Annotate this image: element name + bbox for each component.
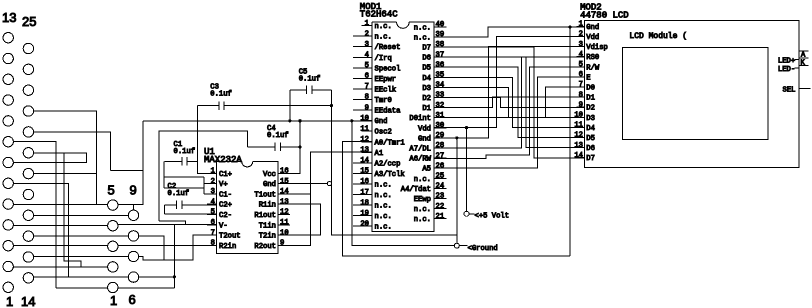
connector J1 DB25 pin 12 circle bbox=[3, 53, 13, 63]
svg-text:R2out: R2out bbox=[254, 243, 276, 251]
svg-text:24: 24 bbox=[436, 183, 445, 191]
wire DB25 pin20 to node bbox=[34, 173, 97, 175]
MOD1 pin 12 stub bbox=[362, 141, 373, 143]
svg-text:E: E bbox=[586, 74, 590, 82]
U1 pin 1 stub bbox=[207, 172, 217, 174]
svg-text:n.c.: n.c. bbox=[375, 34, 392, 42]
MOD1 pin 35 stub bbox=[434, 76, 447, 78]
svg-text:<+5 Volt: <+5 Volt bbox=[475, 213, 510, 221]
junction C4 right bbox=[298, 145, 301, 148]
svg-text:D5: D5 bbox=[422, 65, 431, 73]
MOD1 pin 32 stub bbox=[434, 107, 447, 109]
svg-text:13: 13 bbox=[280, 198, 289, 206]
MOD2 pin 10 stub bbox=[577, 116, 585, 118]
MOD1 pin 24 stub bbox=[434, 187, 447, 189]
svg-text:Osc2: Osc2 bbox=[375, 129, 392, 137]
U1 pin 3 stub bbox=[207, 193, 217, 195]
connector J1 DB25 pin 5 circle bbox=[3, 199, 13, 209]
svg-text:D4: D4 bbox=[586, 125, 595, 133]
MOD2 pin 14 stub bbox=[577, 157, 585, 159]
connector J2 DB9 pin 4 circle bbox=[108, 221, 118, 231]
svg-text:31: 31 bbox=[436, 112, 445, 120]
svg-text:EEpwr: EEpwr bbox=[375, 76, 397, 84]
wire U1 T1out to drop bbox=[278, 193, 311, 195]
capacitor C3 0.1uf bbox=[198, 101, 332, 109]
wire DB9 pin4 to U1 pin6 V- bbox=[118, 223, 217, 225]
junction LCD Gnd riser bbox=[568, 25, 571, 28]
svg-text:33: 33 bbox=[436, 92, 445, 100]
svg-text:D0: D0 bbox=[586, 85, 595, 93]
svg-text:C1-: C1- bbox=[219, 191, 232, 199]
svg-text:1: 1 bbox=[365, 20, 369, 28]
MOD1 pin 6 stub bbox=[353, 77, 372, 79]
svg-text:6: 6 bbox=[129, 292, 136, 307]
wire jog vertical bbox=[203, 177, 205, 194]
MOD1 pin 5 stub bbox=[353, 67, 372, 69]
svg-text:n.c.: n.c. bbox=[414, 206, 431, 214]
terminal Ground open circle bbox=[454, 243, 459, 248]
MOD1 pin 13 stub bbox=[362, 151, 373, 153]
MOD1 pin 16 stub bbox=[353, 183, 372, 185]
svg-text:/Reset: /Reset bbox=[375, 44, 401, 52]
svg-text:15: 15 bbox=[280, 178, 289, 186]
connector J2 DB9 pin 8 circle bbox=[128, 231, 138, 241]
svg-text:V+: V+ bbox=[219, 181, 228, 189]
MOD2 pin 11 stub bbox=[577, 126, 585, 128]
svg-text:A0/Tmr1: A0/Tmr1 bbox=[375, 139, 405, 147]
MOD2 pin 4 stub bbox=[577, 56, 585, 58]
svg-text:20: 20 bbox=[360, 220, 369, 228]
connector J1 DB25 pin 19 circle bbox=[23, 168, 33, 178]
U1 pin 7 stub bbox=[207, 234, 217, 236]
MOD2 pin 13 stub bbox=[577, 147, 585, 149]
wire DB9 pin8 drop to T2out line bbox=[139, 236, 165, 260]
svg-text:9: 9 bbox=[280, 240, 284, 248]
svg-text:Tmr0: Tmr0 bbox=[375, 97, 392, 105]
module MOD2 44780 LCD outer box bbox=[584, 21, 799, 168]
wire MOD1 pin32 D1 to LCD pin8 bbox=[434, 97, 585, 107]
MOD1 pin 9 stub bbox=[353, 109, 372, 111]
MOD1 pin 20 stub bbox=[353, 225, 372, 227]
svg-text:1: 1 bbox=[211, 168, 215, 176]
tick Ground bbox=[459, 245, 467, 247]
svg-text:n.c.: n.c. bbox=[375, 224, 392, 232]
svg-text:0.1uf: 0.1uf bbox=[210, 91, 232, 99]
connector J2 DB9 pin 9 circle bbox=[128, 210, 138, 220]
svg-text:4: 4 bbox=[365, 51, 369, 59]
svg-text:29: 29 bbox=[436, 132, 445, 140]
svg-text:10: 10 bbox=[574, 112, 583, 120]
svg-text:n.c.: n.c. bbox=[375, 182, 392, 190]
svg-text:13: 13 bbox=[574, 142, 583, 150]
wire into U1 pin2 bbox=[204, 183, 216, 185]
wire jumper DB25 pin21R to pin8L bbox=[13, 153, 86, 163]
MOD2 pin 8 stub bbox=[577, 96, 585, 98]
capacitor C5 0.1uf bbox=[290, 86, 332, 94]
MOD1 pin 27 stub bbox=[434, 157, 447, 159]
svg-text:6: 6 bbox=[211, 219, 215, 227]
svg-text:6: 6 bbox=[579, 71, 583, 79]
wire drop to DB9 pin2 net bbox=[64, 153, 81, 267]
wire DB25 pin22 to DB9 pin5 bbox=[34, 111, 97, 205]
svg-text:22: 22 bbox=[436, 203, 445, 211]
MOD1 pin 11 stub bbox=[362, 130, 373, 132]
svg-text:35: 35 bbox=[436, 72, 445, 80]
MOD1 pin 29 stub bbox=[434, 137, 447, 139]
U1 pin 8 stub bbox=[207, 244, 217, 246]
svg-text:14: 14 bbox=[280, 188, 289, 196]
IC MOD1 T62H64C body bbox=[397, 22, 410, 28]
U1 pin 5 stub bbox=[207, 214, 217, 216]
svg-text:28: 28 bbox=[436, 142, 445, 150]
svg-text:D3: D3 bbox=[586, 115, 595, 123]
svg-text:n.c.: n.c. bbox=[414, 176, 431, 184]
connector J1 DB25 pin 16 circle bbox=[23, 231, 33, 241]
svg-text:39: 39 bbox=[436, 31, 445, 39]
svg-text:D4: D4 bbox=[422, 75, 431, 83]
connector J2 DB9 pin 3 circle bbox=[108, 241, 118, 251]
wire jog to U1 pin6 row bbox=[159, 221, 186, 225]
svg-text:A4/Tdat: A4/Tdat bbox=[401, 186, 431, 194]
MOD1 pin 2 stub bbox=[353, 35, 372, 37]
svg-text:8: 8 bbox=[365, 94, 369, 102]
svg-text:2: 2 bbox=[211, 178, 215, 186]
wire MOD1 pin13 to U1 R2out bbox=[278, 152, 372, 245]
svg-text:Vdd: Vdd bbox=[586, 34, 599, 42]
MOD1 pin 34 stub bbox=[434, 86, 447, 88]
wire MOD1 pin36 D5 to LCD pin12 bbox=[434, 67, 585, 137]
wire ground drop to terminal bbox=[456, 138, 458, 243]
svg-text:5: 5 bbox=[108, 183, 115, 198]
svg-text:14: 14 bbox=[360, 157, 369, 165]
MOD1 pin 33 stub bbox=[434, 97, 447, 99]
svg-text:R/W: R/W bbox=[586, 64, 600, 72]
MOD2 pin 7 stub bbox=[577, 86, 585, 88]
svg-text:n.c.: n.c. bbox=[375, 192, 392, 200]
wire DB9 pin6 to junction bbox=[139, 276, 175, 278]
junction DB9 pin6 net bbox=[173, 275, 176, 278]
U1 pin 6 stub bbox=[207, 224, 217, 226]
connector J2 DB9 pin 7 circle bbox=[128, 251, 138, 261]
junction Vcc vertical on ground line bbox=[298, 119, 301, 122]
wire ground drop to rail bbox=[352, 121, 457, 246]
svg-text:37: 37 bbox=[436, 51, 445, 59]
connector J1 DB25 pin 18 circle bbox=[23, 189, 33, 199]
wire drop into DB9 pin9 bbox=[133, 205, 135, 210]
wire MOD1 pin28 to LCD pin4 bbox=[434, 57, 585, 148]
svg-text:C1+: C1+ bbox=[219, 171, 232, 179]
wire bridge to DB9 pin9 net bbox=[111, 169, 143, 171]
MOD1 pin 40 stub bbox=[434, 26, 447, 28]
LCD display screen inner box bbox=[623, 48, 768, 140]
wire DB25 pin8L down bbox=[13, 142, 56, 289]
connector J1 DB25 pin 4 circle bbox=[3, 220, 13, 230]
connector J1 DB25 pin 11 circle bbox=[3, 74, 13, 84]
MOD1 pin 3 stub bbox=[353, 46, 372, 48]
connector J1 DB25 pin 14 circle bbox=[23, 273, 33, 283]
wire DB9 pin4 net riser to capacitor C4 bbox=[159, 131, 248, 221]
junction C3 right bbox=[330, 104, 333, 107]
wire MOD1 pin37 D6 to LCD pin13 bbox=[434, 57, 585, 148]
MOD2 pin 2 stub bbox=[577, 36, 585, 38]
connector J1 DB25 pin 2 circle bbox=[3, 261, 13, 271]
svg-text:n.c.: n.c. bbox=[375, 23, 392, 31]
wire DB25 pin21 to bridge bbox=[34, 132, 111, 171]
wire MOD1 pin35 D4 to LCD pin11 bbox=[434, 77, 585, 127]
wire DB25 pin4L to DB9 pin4 bbox=[13, 224, 107, 226]
svg-text:EEclk: EEclk bbox=[375, 86, 397, 94]
wire +5V drop bbox=[466, 128, 468, 212]
svg-text:/Irq: /Irq bbox=[375, 55, 392, 63]
svg-text:LED+: LED+ bbox=[778, 58, 795, 66]
svg-text:Vdd: Vdd bbox=[418, 125, 431, 133]
connector J1 DB25 pin 6 circle bbox=[3, 178, 13, 188]
wire DB25 pin15R to DB9 pin6 bbox=[34, 276, 129, 278]
MOD1 pin 23 stub bbox=[434, 198, 447, 200]
U1 pin 4 stub bbox=[207, 203, 217, 205]
svg-text:5: 5 bbox=[579, 61, 583, 69]
wire DB25 pin7L to DB9 pin6 net bbox=[13, 183, 68, 277]
connector J1 DB25 pin 13 circle bbox=[3, 33, 13, 43]
svg-text:11: 11 bbox=[574, 122, 583, 130]
svg-text:RS0: RS0 bbox=[586, 54, 599, 62]
svg-text:2: 2 bbox=[365, 30, 369, 38]
connector J1 DB25 pin 8 circle bbox=[3, 137, 13, 147]
wire DB25 pin16R to DB9 pin8 bbox=[34, 235, 129, 237]
MOD1 pin 14 stub bbox=[353, 162, 372, 164]
capacitor C4 0.1uf bbox=[248, 143, 300, 151]
svg-text:40: 40 bbox=[436, 21, 445, 29]
svg-text:9: 9 bbox=[130, 183, 137, 198]
svg-text:2: 2 bbox=[579, 31, 583, 39]
MOD1 pin 7 stub bbox=[353, 88, 372, 90]
svg-text:16: 16 bbox=[360, 178, 369, 186]
svg-text:D7: D7 bbox=[422, 45, 431, 53]
wire to U1 pin2 jog bbox=[164, 176, 204, 178]
svg-text:D1: D1 bbox=[422, 105, 431, 113]
svg-text:A6/RW: A6/RW bbox=[409, 156, 431, 164]
connector J2 DB9 pin 2 circle bbox=[108, 262, 118, 272]
MOD1 pin 4 stub bbox=[353, 56, 372, 58]
svg-text:Gnd: Gnd bbox=[375, 118, 388, 126]
wire DB25 pin17R to DB9 pin9 bbox=[34, 214, 129, 216]
svg-text:A5: A5 bbox=[422, 166, 431, 174]
U1 pin 10 stub bbox=[278, 234, 290, 236]
wire C2 to U1 pin5 bbox=[165, 213, 217, 215]
MOD1 pin 36 stub bbox=[434, 66, 447, 68]
MOD1 pin 8 stub bbox=[353, 99, 372, 101]
svg-text:32: 32 bbox=[436, 102, 445, 110]
svg-text:EEdata: EEdata bbox=[375, 108, 402, 116]
svg-text:n.c.: n.c. bbox=[414, 24, 431, 32]
svg-text:<Ground: <Ground bbox=[468, 245, 498, 253]
wire DB25 pin5L to DB9 pin5 bbox=[13, 204, 107, 206]
wire ground net DB9 pin9 to MOD1 pin10 bbox=[143, 120, 372, 122]
junction ground drop on pin10 line bbox=[350, 119, 353, 122]
svg-text:10: 10 bbox=[360, 115, 369, 123]
svg-text:LED-: LED- bbox=[778, 66, 795, 74]
wire U1 R1in to T2in loop bbox=[278, 204, 320, 235]
svg-text:5: 5 bbox=[211, 209, 215, 217]
wire MOD1 pin39 to LCD pin1 Gnd bbox=[447, 27, 585, 37]
svg-text:16: 16 bbox=[280, 168, 289, 176]
svg-text:25: 25 bbox=[436, 173, 445, 181]
wire MOD1 Vdd to LCD pin2 bbox=[434, 37, 585, 128]
svg-text:D6: D6 bbox=[586, 145, 595, 153]
connector J1 DB25 pin 15 circle bbox=[23, 252, 33, 262]
connector J1 DB25 pin 3 circle bbox=[3, 241, 13, 251]
connector J1 DB25 pin 21 circle bbox=[23, 127, 33, 137]
wire to U1 pin3 jog bbox=[164, 187, 204, 189]
U1 pin 16 stub bbox=[278, 172, 290, 174]
wire C1 left leg down bbox=[163, 161, 165, 188]
wire MOD1 pin33 D2 to LCD pin9 bbox=[434, 98, 585, 108]
MOD1 pin 39 stub bbox=[434, 36, 447, 38]
svg-text:27: 27 bbox=[436, 152, 445, 160]
connector J1 DB25 pin 17 circle bbox=[23, 210, 33, 220]
svg-text:R2in: R2in bbox=[219, 243, 236, 251]
svg-text:A7/DL: A7/DL bbox=[409, 146, 431, 154]
svg-text:T1out: T1out bbox=[254, 191, 276, 199]
wire C2 left leg down bbox=[164, 205, 166, 214]
MOD1 pin 15 stub bbox=[353, 172, 372, 174]
MOD1 pin 38 stub bbox=[434, 46, 447, 48]
svg-text:15: 15 bbox=[360, 168, 369, 176]
wire MOD1 pin12 down to LCD gnd rail bbox=[342, 142, 570, 257]
svg-text:9: 9 bbox=[365, 104, 369, 112]
svg-text:17: 17 bbox=[360, 189, 369, 197]
connector J1 DB25 pin 22 circle bbox=[23, 106, 33, 116]
wire C3 left leg to U1 pin1 bbox=[198, 106, 217, 174]
svg-text:12: 12 bbox=[574, 132, 583, 140]
MOD1 pin 18 stub bbox=[353, 204, 372, 206]
MOD2 pin 5 stub bbox=[577, 66, 585, 68]
svg-text:D6: D6 bbox=[422, 55, 431, 63]
svg-text:26: 26 bbox=[436, 162, 445, 170]
svg-text:LCD Module (: LCD Module ( bbox=[629, 32, 687, 41]
connector J1 DB25 pin 7 circle bbox=[3, 157, 13, 167]
wire into U1 pin3 bbox=[204, 193, 216, 195]
svg-text:D7: D7 bbox=[586, 155, 595, 163]
MOD1 pin 25 stub bbox=[434, 177, 447, 179]
svg-text:Gnd: Gnd bbox=[263, 181, 276, 189]
MOD1 pin 31 stub bbox=[434, 117, 447, 119]
connector J1 DB25 pin 24 circle bbox=[23, 64, 33, 74]
U1 pin 11 stub bbox=[278, 224, 290, 226]
svg-text:18: 18 bbox=[360, 199, 369, 207]
connector J2 DB9 pin 5 circle bbox=[108, 200, 118, 210]
svg-text:25: 25 bbox=[22, 14, 36, 29]
svg-text:D2: D2 bbox=[422, 95, 431, 103]
svg-text:0.1uf: 0.1uf bbox=[299, 76, 321, 84]
MOD2 pin 12 stub bbox=[577, 137, 585, 139]
capacitor C2 0.1uf bbox=[165, 201, 217, 209]
connector J1 DB25 pin 9 circle bbox=[3, 116, 13, 126]
svg-text:11: 11 bbox=[360, 125, 369, 133]
svg-text:A3/Tclk: A3/Tclk bbox=[375, 171, 405, 179]
connector J1 DB25 pin 1 circle bbox=[3, 282, 13, 292]
svg-text:C2-: C2- bbox=[219, 212, 232, 220]
connector J1 DB25 pin 25 circle bbox=[23, 43, 33, 53]
svg-text:12: 12 bbox=[280, 209, 289, 217]
connector J1 DB25 pin 20 circle bbox=[23, 148, 33, 158]
svg-text:T2in: T2in bbox=[259, 233, 276, 241]
U1 pin 13 stub bbox=[278, 203, 290, 205]
wire DB25 pin3L R2in long line bbox=[13, 245, 216, 247]
wire C5 left leg bbox=[289, 90, 291, 121]
MOD1 pin 22 stub bbox=[434, 208, 447, 210]
capacitor C1 0.1uf bbox=[164, 157, 197, 165]
svg-text:36: 36 bbox=[436, 61, 445, 69]
svg-text:21: 21 bbox=[436, 213, 445, 221]
svg-text:T2out: T2out bbox=[219, 233, 241, 241]
svg-text:n.c.: n.c. bbox=[375, 203, 392, 211]
svg-text:Vcc: Vcc bbox=[263, 171, 276, 179]
svg-text:7: 7 bbox=[579, 81, 583, 89]
svg-text:3: 3 bbox=[365, 41, 369, 49]
MOD1 pin 19 stub bbox=[353, 215, 372, 217]
svg-text:A2/ccp: A2/ccp bbox=[375, 160, 401, 168]
wire to DB9 pin1 and junction riser bbox=[56, 287, 174, 289]
svg-text:44780 LCD: 44780 LCD bbox=[580, 11, 629, 21]
wire junction riser to DB9 pin1 line bbox=[173, 224, 175, 288]
svg-text:13: 13 bbox=[2, 10, 16, 25]
svg-text:V-: V- bbox=[219, 222, 228, 230]
svg-text:30: 30 bbox=[436, 122, 445, 130]
svg-text:n.c.: n.c. bbox=[375, 213, 392, 221]
svg-text:R1in: R1in bbox=[259, 202, 276, 210]
svg-text:T1in: T1in bbox=[259, 222, 276, 230]
MOD1 pin 1 stub bbox=[362, 25, 373, 27]
wire DB25 pin17R to DB9 pin7 bbox=[34, 256, 129, 258]
MOD2 pin 3 stub bbox=[577, 46, 585, 48]
svg-text:3: 3 bbox=[211, 188, 215, 196]
svg-text:34: 34 bbox=[436, 82, 445, 90]
svg-text:38: 38 bbox=[436, 41, 445, 49]
svg-text:10: 10 bbox=[280, 229, 289, 237]
MOD1 pin 30 stub bbox=[434, 127, 447, 129]
junction +5V tap bbox=[465, 126, 468, 129]
svg-text:D3: D3 bbox=[422, 85, 431, 93]
MOD1 pin 17 stub bbox=[353, 194, 372, 196]
svg-text:0.1uf: 0.1uf bbox=[168, 190, 190, 198]
MOD2 pin 1 stub bbox=[577, 25, 585, 27]
svg-text:4: 4 bbox=[579, 51, 583, 59]
wire MOD1 pin38 D7 to LCD pin14 bbox=[434, 47, 585, 158]
svg-text:D5: D5 bbox=[586, 135, 595, 143]
svg-text:12: 12 bbox=[360, 136, 369, 144]
svg-text:1: 1 bbox=[6, 294, 13, 308]
svg-text:n.c.: n.c. bbox=[414, 34, 431, 42]
svg-text:8: 8 bbox=[579, 91, 583, 99]
svg-text:13: 13 bbox=[360, 147, 369, 155]
svg-text:R1out: R1out bbox=[254, 212, 276, 220]
svg-text:23: 23 bbox=[436, 193, 445, 201]
svg-text:5: 5 bbox=[365, 62, 369, 70]
MOD2 pin 6 stub bbox=[577, 76, 585, 78]
svg-text:Vdisp: Vdisp bbox=[586, 44, 608, 52]
wire ground C5 right leg down and rail bbox=[331, 90, 456, 235]
svg-text:A1: A1 bbox=[375, 150, 384, 158]
terminal +5 Volt open circle bbox=[464, 211, 469, 216]
junction C5 left on ground line bbox=[288, 119, 291, 122]
U1 pin 15 stub bbox=[278, 183, 290, 185]
wire MOD1 pin27 to LCD pin5 bbox=[434, 67, 585, 158]
svg-text:19: 19 bbox=[360, 210, 369, 218]
connector J2 DB9 pin 6 circle bbox=[128, 272, 138, 282]
LCD backlight pins A and K ladder bbox=[799, 51, 808, 66]
connector J2 DB9 pin 1 circle bbox=[108, 282, 118, 292]
